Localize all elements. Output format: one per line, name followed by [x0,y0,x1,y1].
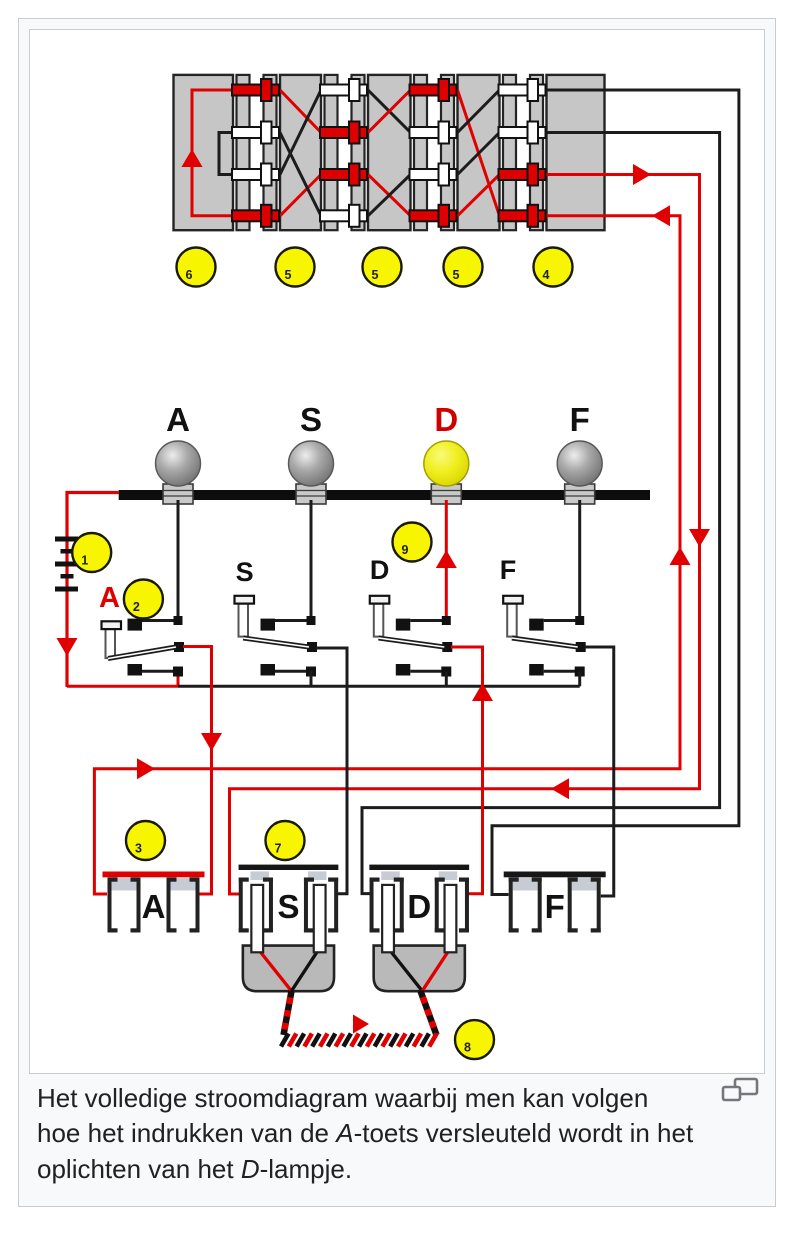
plugboard socket D (plug inserted) [369,865,469,992]
plugboard socket A (no plug, active red) [103,872,205,933]
svg-text:5: 5 [372,268,379,282]
contact plates at junction 2 [325,75,365,230]
wire lamp S to switch S [310,500,313,621]
label circle 4 (entry stator) [534,248,573,287]
svg-text:5: 5 [453,268,460,282]
svg-text:2: 2 [133,600,140,614]
svg-text:A: A [99,582,120,614]
lamp label S [300,401,322,438]
rotor 2 internal wiring [368,90,411,216]
contact pin junction 2 row 2 (active red) [320,122,367,144]
svg-text:A: A [142,888,166,925]
contact pin junction 4 row 1 (inactive) [499,79,546,101]
contact plates at junction 3 [414,75,454,230]
contact pin junction 3 row 1 (active red) [410,79,457,101]
contact pin junction 3 row 2 (inactive) [410,122,457,144]
contact pin junction 3 row 3 (inactive) [410,164,457,186]
svg-text:S: S [300,401,322,438]
svg-text:4: 4 [543,268,550,282]
label circle 6 (reflector) [177,248,216,287]
key switch F [503,596,586,687]
rotor 2 body [368,75,411,230]
label circle 8 (patch cable) [455,1020,494,1059]
svg-text:S: S [277,888,299,925]
contact pin junction 1 row 2 (inactive) [232,122,279,144]
svg-text:7: 7 [275,842,282,856]
label circle 7 (plugboard S) [266,821,305,860]
rotor 1 body [280,75,321,230]
contact pin junction 2 row 3 (active red) [320,164,367,186]
contact pin junction 1 row 1 (active red) [232,79,279,101]
wire lamp D to switch D (red, current up) [436,500,457,621]
contact pin junction 3 row 4 (active red) [410,205,457,227]
reflector body (UKW) [174,75,234,230]
svg-text:1: 1 [81,554,88,568]
wire: stator row1 to plugboard F (black) [492,90,739,895]
svg-text:6: 6 [186,268,193,282]
svg-text:9: 9 [402,543,409,557]
svg-text:D: D [370,555,390,585]
plugboard socket F (no plug) [504,872,606,933]
label circle 5 (rotor 3) [444,248,483,287]
wire plugboard D right to switch D pivot (red, current up) [451,647,493,894]
contact plates at junction 1 [237,75,277,230]
switch label D [370,555,390,585]
rotor 3 internal wiring [458,90,500,216]
lamp label A [166,401,190,438]
svg-text:F: F [570,401,590,438]
contact plates at junction 4 [503,75,543,230]
label circle 2 (pressed key A) [124,580,163,619]
contact pin junction 4 row 4 (active red) [499,205,546,227]
wire lamp F to switch F [578,500,581,621]
rotor 1 internal wiring [280,90,321,216]
lamp label F [570,401,590,438]
wire switch S pivot to plugboard S right [316,648,347,894]
magnify icon [720,1076,760,1106]
label circle 1 (battery) [72,533,111,572]
battery bus to key switches (black segment) [178,685,580,688]
rotor 3 body [458,75,500,230]
lamp S [289,441,334,504]
key switch A (pressed) [102,616,185,677]
lamp F [557,441,602,504]
label circle 3 (plugboard A) [126,821,165,860]
reflector black bracket wire [219,133,232,175]
battery bus to key switches (red segment) [67,671,178,686]
label circle 9 (lamp D) [393,523,432,562]
label circle 5 (rotor 1) [276,248,315,287]
wire: stator row2 to plugboard D left (black) [362,133,720,894]
key switch S [235,596,318,687]
wire switch A pivot to plugboard A (red, current down) [183,647,222,895]
caption text [37,1081,727,1187]
contact pin junction 4 row 2 (inactive) [499,122,546,144]
label circle 5 (rotor 2) [363,248,402,287]
key switch D [370,596,453,687]
svg-text:3: 3 [135,842,142,856]
svg-text:8: 8 [464,1041,471,1055]
switch label F [500,555,517,585]
contact pin junction 1 row 3 (inactive) [232,164,279,186]
contact pin junction 4 row 3 (active red) [499,164,546,186]
contact pin junction 1 row 4 (active red) [232,205,279,227]
plugboard socket S (plug inserted) [239,865,339,992]
lamp rail bar [119,490,650,500]
wire switch F pivot to plugboard F right [585,647,614,896]
svg-text:S: S [236,557,254,587]
lamp label D [434,401,458,438]
svg-text:A: A [166,401,190,438]
reflector red return loop wire [182,90,233,216]
contact pin junction 2 row 1 (inactive) [320,79,367,101]
wire: stator row3 to plugboard S left (red, outgoing current) [230,164,711,894]
plugboard patch cable S-D (striped) [281,991,437,1047]
cable current arrow [353,1015,369,1034]
lamp A [156,441,201,504]
svg-text:D: D [407,888,431,925]
svg-text:F: F [545,888,565,925]
image area [29,29,765,1074]
contact pin junction 2 row 4 (inactive) [320,205,367,227]
battery (1) [55,537,78,592]
wire: plugboard A to stator row4 (red, incoming current) [94,205,690,894]
svg-text:D: D [434,401,458,438]
lamp D (lit) [424,441,469,504]
red feed wire from lamp rail to battery [57,493,119,688]
wire lamp A to switch A [177,500,180,621]
switch label S [236,557,254,587]
svg-text:5: 5 [285,268,292,282]
entry stator body (ETW) [547,75,605,230]
stator pass-through wires [547,90,605,216]
svg-text:F: F [500,555,517,585]
switch label A (red, pressed) [99,582,120,614]
